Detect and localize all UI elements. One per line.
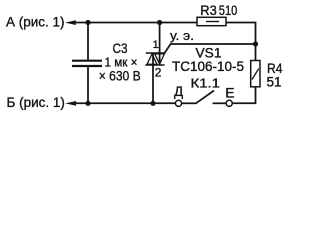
svg-text:у. э.: у. э.: [170, 28, 194, 43]
svg-text:А (рис. 1): А (рис. 1): [6, 14, 65, 29]
terminal D: [175, 100, 181, 106]
wire top rail right: [226, 23, 256, 61]
svg-text:Д: Д: [174, 84, 183, 99]
svg-text:510: 510: [219, 2, 238, 18]
svg-text:51: 51: [267, 75, 282, 90]
svg-text:R4: R4: [267, 61, 283, 76]
switch K1.1 blade: [196, 91, 214, 104]
wire D to blade: [182, 102, 197, 104]
node A arrow: [65, 20, 76, 25]
junction top cap: [85, 20, 90, 25]
wire bottom rail: [76, 102, 176, 104]
terminal E: [226, 100, 232, 106]
node B arrow: [65, 101, 76, 106]
svg-text:Е: Е: [225, 84, 234, 100]
wire cap bottom lead: [87, 66, 89, 103]
capacitor C3: [72, 61, 102, 66]
junction bottom cap: [85, 101, 90, 106]
wire triac anode lead: [159, 23, 161, 66]
wire E stub: [213, 102, 227, 104]
triac VS1: [145, 53, 164, 65]
wire R4 bottom: [232, 87, 255, 104]
svg-text:К1.1: К1.1: [191, 76, 221, 91]
svg-text:× 630 В: × 630 В: [99, 67, 141, 83]
wire top rail left: [75, 22, 197, 24]
junction top triac: [157, 20, 162, 25]
junction gate: [253, 41, 258, 46]
junction bottom triac cathode: [150, 101, 155, 106]
svg-text:R3: R3: [200, 2, 217, 18]
svg-text:Б (рис. 1): Б (рис. 1): [7, 95, 65, 110]
svg-text:2: 2: [155, 66, 162, 80]
resistor R3: [197, 17, 226, 25]
wire triac cathode lead: [152, 53, 154, 103]
svg-text:1: 1: [153, 39, 159, 51]
svg-text:ТС106-10-5: ТС106-10-5: [172, 59, 244, 74]
wire cap top lead: [87, 23, 89, 61]
resistor R4: [251, 61, 260, 87]
wire gate: [164, 44, 255, 53]
